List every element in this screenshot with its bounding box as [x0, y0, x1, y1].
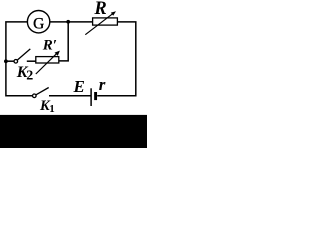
svg-text:1: 1 — [49, 103, 55, 115]
svg-text:G: G — [33, 16, 44, 33]
svg-text:R: R — [93, 0, 106, 19]
svg-text:R′: R′ — [42, 37, 57, 53]
svg-text:E: E — [73, 77, 85, 96]
svg-text:2: 2 — [26, 69, 33, 84]
svg-text:r: r — [99, 75, 106, 94]
